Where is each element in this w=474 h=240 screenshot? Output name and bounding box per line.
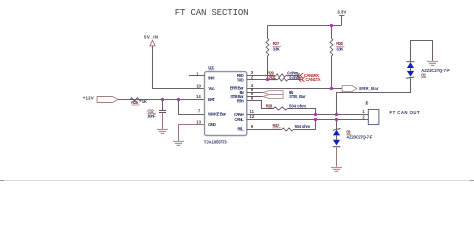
pin 6 EN wire xyxy=(247,92,263,94)
wire D1 loop from CANH xyxy=(337,78,411,115)
resistor R31 xyxy=(269,75,301,81)
IC U2 transceiver TJA1055T/3 xyxy=(205,72,247,136)
node junction D1 / CANH xyxy=(335,113,338,116)
svg-text:FT CAN SECTION: FT CAN SECTION xyxy=(175,8,249,18)
svg-text:U2: U2 xyxy=(208,65,214,70)
connector J5 FT CAN OUT xyxy=(362,101,420,125)
svg-text:1K: 1K xyxy=(142,99,147,104)
port +12V xyxy=(83,95,118,102)
svg-text:+12V: +12V xyxy=(83,95,94,100)
svg-text:WAKE Bar: WAKE Bar xyxy=(208,111,226,116)
pin 5 STB Bar wire xyxy=(247,96,263,98)
diode D6 dual zener xyxy=(333,120,373,167)
svg-text:ERR_Bar: ERR_Bar xyxy=(359,86,379,91)
node junction R27 / TXD xyxy=(266,78,269,81)
pin 11 CANH wire xyxy=(247,114,368,116)
resistor R28 xyxy=(266,104,316,115)
node junction +12V / WAKE xyxy=(177,98,180,101)
svg-text:5V_IN: 5V_IN xyxy=(144,35,158,40)
resistor R47 xyxy=(273,120,316,132)
svg-text:TJA1055T/3: TJA1055T/3 xyxy=(204,139,228,144)
svg-text:GND: GND xyxy=(208,122,216,127)
svg-text:R31: R31 xyxy=(269,75,276,80)
svg-text:3.3K: 3.3K xyxy=(273,46,280,51)
port EN xyxy=(263,91,283,95)
wire GND pin 13 to ground xyxy=(179,125,205,142)
svg-text:BAT: BAT xyxy=(208,97,215,102)
node junction 3.3V rail / R26 xyxy=(330,24,333,27)
svg-text:R28: R28 xyxy=(266,104,273,109)
net label CAN1TX xyxy=(299,77,321,82)
power symbol 3.3V xyxy=(337,9,346,25)
svg-text:13: 13 xyxy=(196,119,201,124)
svg-text:TXD: TXD xyxy=(237,78,244,83)
port ERR_Bar xyxy=(342,86,379,92)
power symbol 5V_IN xyxy=(144,35,158,46)
svg-text:3.3K: 3.3K xyxy=(336,46,343,51)
svg-text:CAN1TX: CAN1TX xyxy=(305,77,320,82)
svg-text:12: 12 xyxy=(250,114,255,119)
svg-text:14: 14 xyxy=(196,94,201,99)
svg-text:CANL: CANL xyxy=(234,117,244,122)
wire +12V rail to BAT pin 14 xyxy=(118,99,204,101)
resistor R29 xyxy=(267,71,300,78)
svg-text:RTL: RTL xyxy=(237,127,244,132)
node junction +12V / C12 xyxy=(161,98,164,101)
wire WAKE column to pin 7 xyxy=(179,100,205,115)
pin 8 RTH wire xyxy=(247,101,274,109)
svg-text:504 ohm: 504 ohm xyxy=(289,104,306,109)
ground at D1 xyxy=(427,62,438,66)
svg-text:10: 10 xyxy=(196,83,201,88)
pin 9 RTL wire xyxy=(247,129,282,131)
svg-text:R25: R25 xyxy=(131,100,138,105)
svg-text:D1: D1 xyxy=(421,73,426,78)
wire 5V_IN to Vcc pin 10 xyxy=(153,46,205,89)
svg-text:10nF: 10nF xyxy=(147,113,156,118)
pin 3 RXD wire xyxy=(247,75,275,77)
svg-text:Vcc: Vcc xyxy=(208,86,215,91)
pin 4 ERR Bar wire xyxy=(247,88,342,90)
node junction R26 / ERR xyxy=(330,87,333,90)
svg-text:504 ohm: 504 ohm xyxy=(295,124,311,129)
pin 2 TXD wire xyxy=(247,79,278,81)
sheet border bottom xyxy=(0,180,474,182)
ground at pin 13 xyxy=(173,142,184,146)
svg-text:RTH: RTH xyxy=(237,99,244,104)
pin 12 CANL wire xyxy=(247,119,368,121)
svg-text:AZ23C27Q-7-F: AZ23C27Q-7-F xyxy=(346,135,372,140)
node junction R28 / CANH xyxy=(314,113,317,116)
svg-text:R47: R47 xyxy=(273,123,280,128)
svg-text:INH: INH xyxy=(208,75,214,80)
ground at D6 xyxy=(331,168,342,172)
node junction R47 / CANL xyxy=(314,118,317,121)
wire 3.3V rail xyxy=(268,25,342,27)
net label CAN1RX xyxy=(297,73,319,78)
svg-text:3.3V: 3.3V xyxy=(337,9,346,14)
port STB_Bar xyxy=(263,95,283,99)
node junction D6 / CANL xyxy=(335,118,338,121)
ground under C12 xyxy=(157,130,168,134)
capacitor C12 xyxy=(147,100,166,130)
resistor R25 xyxy=(130,98,147,105)
resistor R27 xyxy=(266,26,281,80)
svg-text:STB_Bar: STB_Bar xyxy=(289,94,306,99)
diode D1 dual zener xyxy=(406,41,450,79)
svg-text:FT CAN OUT: FT CAN OUT xyxy=(390,110,420,115)
pin 1 INH xyxy=(189,75,205,77)
resistor R26 xyxy=(330,26,345,89)
